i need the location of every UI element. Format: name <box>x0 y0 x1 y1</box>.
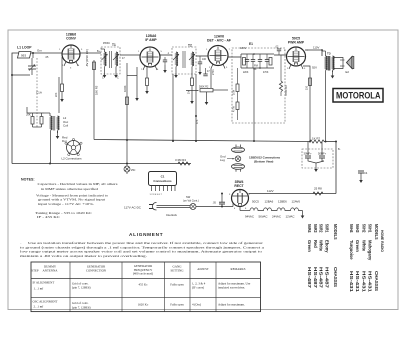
capacitor grid coupling <box>277 49 281 51</box>
svg-text:Dot: Dot <box>62 139 67 143</box>
models group 2 header <box>307 224 338 289</box>
svg-text:Tilt: Tilt <box>253 67 257 71</box>
tube V4 50C5 power amp <box>287 37 306 70</box>
svg-text:94VAC: 94VAC <box>245 215 254 219</box>
svg-text:56H3: 56H3 <box>355 224 360 233</box>
svg-text:3.3M R4: 3.3M R4 <box>175 158 186 162</box>
resistor T2 secondary return <box>191 78 194 86</box>
svg-text:56R3: 56R3 <box>313 224 318 233</box>
svg-text:Adjust for maximum.: Adjust for maximum. <box>218 303 245 307</box>
home radio title <box>380 230 385 252</box>
svg-text:maintain a .60 volts on output: maintain a .60 volts on output meter to … <box>20 254 147 258</box>
table header row <box>31 264 245 276</box>
svg-text:E1: E1 <box>249 42 253 46</box>
wire V1 pin down left <box>61 57 63 84</box>
svg-text:24VAC: 24VAC <box>272 215 281 219</box>
wire V2 plate to T2 <box>160 54 172 56</box>
svg-text:56R1: 56R1 <box>325 224 330 233</box>
speaker E2 voice coil <box>334 57 354 75</box>
svg-text:Lug: Lug <box>220 158 225 162</box>
svg-text:T1: T1 <box>112 43 116 47</box>
svg-text:B-: B- <box>338 148 341 151</box>
svg-text:18K R5: 18K R5 <box>95 85 99 95</box>
svg-text:-8V (OSC HC): -8V (OSC HC) <box>85 49 89 67</box>
svg-text:White: White <box>319 240 324 252</box>
svg-text:2. .1 mf: 2. .1 mf <box>34 305 45 309</box>
svg-text:1M: 1M <box>188 91 191 94</box>
svg-text:30MF+: 30MF+ <box>304 152 313 156</box>
svg-text:56H1: 56H1 <box>368 224 373 233</box>
capacitor C4 line bypass <box>358 171 368 183</box>
wire V1 screen down <box>93 60 95 140</box>
svg-text:25C: 25C <box>131 169 136 172</box>
svg-text:50MF+: 50MF+ <box>318 152 327 156</box>
oscillator coil L2 <box>44 113 69 164</box>
wire chassis bus <box>12 163 191 165</box>
svg-text:HS-431: HS-431 <box>355 271 360 293</box>
switch SW on volume <box>183 195 199 210</box>
svg-text:C: C <box>102 77 104 80</box>
wire V1 plate to T1 <box>80 52 101 54</box>
wire rectifier plate line <box>249 193 337 195</box>
svg-text:(IF cores): (IF cores) <box>192 286 204 290</box>
svg-text:T3: T3 <box>327 52 331 56</box>
tube V1 12BE6 converter <box>62 33 80 67</box>
svg-text:100: 100 <box>202 58 207 61</box>
svg-text:56VAC: 56VAC <box>259 215 268 219</box>
svg-text:Red: Red <box>313 240 318 248</box>
filament string <box>240 200 304 219</box>
resistor R7 filter <box>310 137 336 144</box>
svg-text:92V: 92V <box>312 66 317 70</box>
svg-text:C4: C4 <box>364 171 368 175</box>
svg-text:C1: C1 <box>161 175 165 179</box>
svg-text:56H2: 56H2 <box>361 224 366 233</box>
transformer T2 IF <box>172 44 196 79</box>
wire V4 cathode down <box>303 66 310 142</box>
svg-text:in MMF unless otherwise specif: in MMF unless otherwise specified <box>41 187 98 191</box>
svg-text:Ebony: Ebony <box>325 240 330 253</box>
C1 connections box <box>149 172 177 197</box>
pin digits V1 <box>59 49 309 210</box>
svg-text:(Bottom View): (Bottom View) <box>254 160 273 164</box>
socket view L2 connections <box>62 136 83 161</box>
svg-text:1 2 3 4 5 6 7: 1 2 3 4 5 6 7 <box>150 194 163 196</box>
svg-text:12VAC: 12VAC <box>286 215 295 219</box>
svg-text:Gm: Gm <box>37 49 42 53</box>
node left bus <box>11 74 13 76</box>
svg-text:ground with a VTVM. No signal: ground with a VTVM. No signal input <box>38 198 105 202</box>
svg-text:MODELS: MODELS <box>374 224 379 240</box>
svg-text:Green: Green <box>307 240 312 252</box>
svg-text:IF - 455 KC: IF - 455 KC <box>37 215 61 219</box>
svg-text:Coil: Coil <box>63 124 68 128</box>
antenna L1 loop <box>17 46 32 59</box>
alignment paragraph <box>20 241 265 258</box>
electrolytic capacitors C3 <box>302 142 333 173</box>
wire T2 secondary to V3 <box>196 55 208 57</box>
svg-text:HOME RADIO: HOME RADIO <box>380 230 385 252</box>
resistor R6 grid leak <box>279 55 288 96</box>
svg-text:MOTOROLA: MOTOROLA <box>336 91 381 101</box>
wire antenna to converter grid <box>31 52 62 54</box>
resistor on avc line <box>126 97 129 105</box>
svg-text:12BA6: 12BA6 <box>265 200 274 204</box>
svg-text:22K: 22K <box>55 92 58 97</box>
capacitor detector load 1 <box>198 62 202 64</box>
wire B- down right <box>335 142 337 194</box>
svg-text:100K: 100K <box>123 85 127 92</box>
resistor cathode bias <box>309 78 312 86</box>
svg-text:270K: 270K <box>212 69 215 75</box>
svg-text:OSC ALIGNMENT: OSC ALIGNMENT <box>33 300 58 304</box>
svg-text:HS-431: HS-431 <box>361 271 366 293</box>
resistor R3 <box>236 84 239 92</box>
wire osc feedback <box>58 77 60 113</box>
svg-text:L2 Connections: L2 Connections <box>62 157 83 161</box>
wire E1 out to V4 grid <box>274 54 287 56</box>
svg-text:PWR AMP: PWR AMP <box>288 41 305 45</box>
svg-text:50C5: 50C5 <box>252 200 259 204</box>
svg-text:455 Kc: 455 Kc <box>138 283 148 287</box>
svg-text:DET - AVC - AF: DET - AVC - AF <box>207 39 231 43</box>
node antenna junction <box>32 52 34 54</box>
wire V1 grid down <box>126 63 128 164</box>
wire V3 pins down <box>210 69 212 89</box>
gang capacitor dashed link <box>36 58 38 128</box>
svg-text:1620 Kc: 1620 Kc <box>138 303 149 307</box>
resistor R9 <box>236 102 239 110</box>
alignment table <box>31 262 261 312</box>
capacitor C1A tuning trimmer <box>12 53 42 95</box>
svg-text:CHASSIS: CHASSIS <box>374 271 379 291</box>
svg-text:IF AMP: IF AMP <box>145 38 157 42</box>
wire V2 cathode down <box>136 67 138 93</box>
wire T2 down to bus <box>172 74 174 141</box>
wire T1 to V2 grid <box>120 54 140 56</box>
svg-text:HS-487: HS-487 <box>307 267 312 289</box>
tube V2 12BA6 IF amp <box>140 34 160 70</box>
wire detector return <box>195 74 197 141</box>
wire osc left <box>26 107 28 113</box>
svg-text:455KC: 455KC <box>103 43 110 45</box>
svg-text:110V: 110V <box>313 46 319 50</box>
svg-text:IF ALIGNMENT: IF ALIGNMENT <box>33 281 55 285</box>
svg-text:4.7M: 4.7M <box>233 106 236 112</box>
svg-text:HS-431: HS-431 <box>368 271 373 293</box>
wire B+ bus <box>94 140 310 142</box>
svg-text:REMARKS: REMARKS <box>231 267 246 271</box>
svg-text:12BE6: 12BE6 <box>278 200 287 204</box>
svg-text:4 (Osc): 4 (Osc) <box>192 303 201 307</box>
svg-text:White: White <box>361 240 366 252</box>
svg-text:L1 LOOP: L1 LOOP <box>17 46 32 50</box>
node grid top <box>253 53 255 55</box>
models group 1 header <box>349 224 379 293</box>
svg-text:ADJUST: ADJUST <box>197 267 209 271</box>
capacitor bypass V2 <box>163 60 167 62</box>
tube V5 35W4 rectifier <box>232 180 249 207</box>
svg-text:SETTING: SETTING <box>171 269 185 273</box>
value labels IF transformers <box>97 50 170 80</box>
svg-text:56R4: 56R4 <box>307 224 312 233</box>
resistor cathode V2 <box>146 78 149 86</box>
wire avc stub <box>127 75 137 77</box>
node plate junction <box>321 49 323 51</box>
resistor in couplate 1 <box>243 58 246 66</box>
svg-text:150: 150 <box>306 85 309 90</box>
svg-text:HS-431: HS-431 <box>349 271 354 293</box>
wire V4 plate to T3 <box>305 50 322 56</box>
node detector return on bus <box>195 140 197 142</box>
svg-text:47K: 47K <box>196 119 199 124</box>
couplate E1 dashed box <box>232 42 285 123</box>
svg-text:C: C <box>117 77 119 80</box>
node avc <box>145 86 149 94</box>
svg-text:220K: 220K <box>243 72 249 74</box>
svg-text:Turquoise: Turquoise <box>349 240 354 260</box>
svg-text:20K: 20K <box>26 113 31 117</box>
svg-text:470K R6: 470K R6 <box>284 85 288 96</box>
tube V3 12AV6 det-avc-af <box>207 35 231 69</box>
capacitor C5 line filter <box>196 193 233 208</box>
wire E1 bottom to bus <box>253 121 255 141</box>
svg-text:Connections: Connections <box>153 179 171 183</box>
svg-text:RECT: RECT <box>234 184 244 188</box>
svg-text:(on Vol Cont.): (on Vol Cont.) <box>183 198 199 202</box>
svg-text:HS-487: HS-487 <box>319 267 324 289</box>
tube socket bottom views <box>220 145 281 172</box>
power plug <box>124 203 157 211</box>
svg-text:1. .1 mf: 1. .1 mf <box>34 287 45 291</box>
svg-text:56R2: 56R2 <box>319 224 324 233</box>
svg-text:MODELS: MODELS <box>333 224 338 240</box>
resistor on screen dropper <box>93 62 96 70</box>
wire V2 screen down <box>146 67 148 78</box>
wire V3 plate to E1 <box>228 56 241 58</box>
svg-text:10M: 10M <box>233 90 236 95</box>
svg-text:(400 cycle mod): (400 cycle mod) <box>133 272 153 276</box>
svg-text:470K: 470K <box>263 72 269 74</box>
svg-text:CONV: CONV <box>66 37 77 41</box>
svg-text:Interlock: Interlock <box>166 213 177 217</box>
svg-text:Fully open: Fully open <box>170 283 184 287</box>
resistor in couplate 2 <box>269 58 272 66</box>
transformer T3 output <box>322 51 334 142</box>
svg-text:CHASSIS: CHASSIS <box>333 267 338 287</box>
wire left bus down <box>12 53 19 164</box>
svg-text:STEP: STEP <box>31 269 39 273</box>
resistor R8 surge <box>313 187 323 196</box>
capacitor detector load 2 <box>203 74 207 76</box>
fuse below bus <box>124 164 130 175</box>
svg-text:993: 993 <box>21 54 26 58</box>
transformer T1 IF <box>101 43 120 78</box>
svg-text:ALIGNMENT: ALIGNMENT <box>129 232 163 237</box>
svg-text:112V: 112V <box>267 189 274 193</box>
svg-text:Fully open: Fully open <box>170 303 184 307</box>
svg-text:25 R8: 25 R8 <box>314 187 322 191</box>
svg-text:insulated screwdriver.: insulated screwdriver. <box>218 286 245 290</box>
resistor R4 <box>175 158 190 165</box>
svg-text:Green: Green <box>355 240 360 252</box>
svg-text:E2: E2 <box>346 70 350 74</box>
svg-text:117V AC-DC: 117V AC-DC <box>124 206 142 210</box>
svg-text:HS-487: HS-487 <box>325 267 330 289</box>
svg-text:input voltage - 117V AC +10%.: input voltage - 117V AC +10%. <box>38 202 94 206</box>
svg-text:12AV6: 12AV6 <box>292 200 301 204</box>
svg-text:HS-487: HS-487 <box>313 267 318 289</box>
wire AVC bus <box>186 90 198 92</box>
svg-text:Mahogany: Mahogany <box>368 240 373 261</box>
resistor osc 1 <box>26 113 44 128</box>
power cord <box>157 205 191 207</box>
svg-text:ANTENNA: ANTENNA <box>43 269 59 273</box>
svg-text:500K R2: 500K R2 <box>199 86 209 89</box>
svg-text:CONNECTION: CONNECTION <box>86 269 107 273</box>
svg-text:NOTES:: NOTES: <box>21 178 35 182</box>
volume control R2 <box>198 89 228 106</box>
svg-text:56H4: 56H4 <box>349 224 354 233</box>
